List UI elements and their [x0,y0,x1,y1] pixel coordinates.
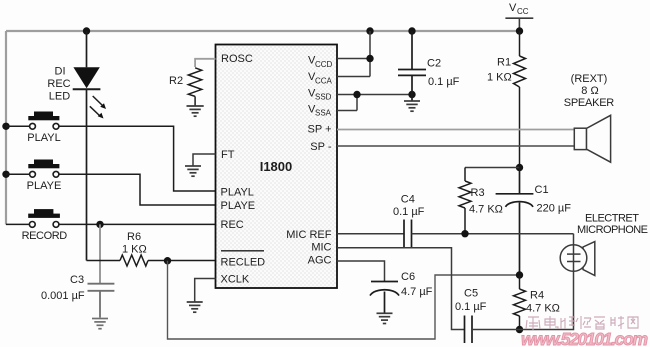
wire Vcca stub [337,76,370,78]
LED emission arrow 1 [93,96,106,109]
label C1 value [535,184,572,215]
resistor R1 [514,31,526,168]
pushbutton RECORD [28,209,60,227]
wire R3 top link [465,167,520,169]
svg-text:4.7 µF: 4.7 µF [401,286,433,298]
ground (C6) [377,313,393,323]
resistor R4 [514,275,526,330]
capacitor C4 [404,220,412,248]
wire microphone bottom to R4 node [520,272,574,330]
capacitor C3 [88,284,115,318]
wire left rail to PLAYL [6,125,29,127]
resistor R3 [459,168,471,234]
node Vssd junction [353,91,360,98]
svg-text:SSD: SSD [315,93,332,102]
svg-text:220 µF: 220 µF [537,203,572,215]
svg-text:PLAYL: PLAYL [27,132,60,144]
electret microphone [560,242,595,276]
label C5 value [455,288,487,314]
svg-text:C2: C2 [427,58,441,70]
node MIC REF / R3 junction [461,230,468,237]
wire AGC to C6 [337,261,385,281]
svg-text:PLAYE: PLAYE [27,180,62,192]
svg-text:R1: R1 [497,57,511,69]
svg-text:4.7 KΩ: 4.7 KΩ [469,204,503,216]
svg-text:MICROPHONE: MICROPHONE [577,224,648,236]
svg-text:ELECTRET: ELECTRET [585,213,639,225]
label C4 value [393,193,425,217]
label C3 value [41,274,85,302]
wire microphone top [573,234,575,245]
LED D1 (DI REC LED) [73,31,101,261]
node C2 ground junction [408,91,415,98]
node left rail / PLAYE [2,171,9,178]
svg-text:R3: R3 [471,187,485,199]
svg-text:SSA: SSA [315,109,332,118]
node R4 / C5 / mic junction [516,326,523,333]
svg-text:XCLK: XCLK [221,274,250,286]
svg-text:CC: CC [517,7,529,16]
wire RECLED feedback trace [168,261,520,339]
svg-text:RECORD: RECORD [22,230,68,242]
wire SP+ line [337,129,574,131]
pin label Vcca [308,71,333,85]
svg-text:ROSC: ROSC [221,53,253,65]
wire ROSC to R2 [195,59,215,67]
speaker (REXT) 8 ohm [574,115,610,162]
svg-text:MIC: MIC [311,242,331,254]
wire left rail [5,31,7,225]
capacitor C1 [496,168,534,276]
pushbutton PLAYE [28,160,59,178]
svg-text:0.1 µF: 0.1 µF [455,301,487,313]
resistor R2 [188,68,201,106]
svg-text:SP +: SP + [308,124,332,136]
node REC wire / C3 junction [96,221,103,228]
node Vccd junction [366,55,373,62]
pin label Vccd [308,55,333,69]
svg-text:PLAYL: PLAYL [221,187,254,199]
ground (FT) [185,166,201,176]
capacitor C2 [398,31,426,101]
svg-text:4.7 KΩ: 4.7 KΩ [526,303,560,315]
svg-text:R4: R4 [530,290,544,302]
wire Vssd stub [337,94,412,96]
LED label DI REC LED [47,65,70,102]
wire SP- line [337,145,574,147]
svg-text:SPEAKER: SPEAKER [564,97,615,109]
svg-text:C6: C6 [401,271,415,283]
wire top supply rail [6,30,520,32]
pin label RECLED with overline [221,251,266,269]
svg-text:www.520101.com: www.520101.com [521,329,648,347]
pin label Vssd [308,87,332,101]
ground (C3) [92,319,108,329]
svg-text:0.1 µF: 0.1 µF [428,76,460,88]
svg-text:8 Ω: 8 Ω [581,85,598,97]
node left rail / PLAYL [2,123,9,130]
wire Vccd stub [337,58,370,60]
pushbutton PLAYL [28,112,59,130]
wire Vssa stub [337,110,357,112]
svg-text:R6: R6 [127,231,141,243]
svg-text:1 KΩ: 1 KΩ [122,244,147,256]
node top rail / C2 junction [408,27,415,34]
wire RECORD to REC pin [59,223,215,225]
wire PLAYL to IC pin [59,126,215,191]
svg-text:REC: REC [47,78,70,90]
wire left rail to PLAYE [6,173,29,175]
label microphone [577,213,648,237]
svg-text:C1: C1 [535,184,549,196]
label R3 value [469,187,503,216]
svg-text:0.001 µF: 0.001 µF [41,290,85,302]
wire FT to ground [193,154,216,166]
svg-text:0.1 µF: 0.1 µF [393,206,425,218]
svg-text:C5: C5 [464,288,478,300]
ground (R2) [187,106,204,116]
wire Vcc branch vertical [369,31,371,77]
svg-text:C3: C3 [70,274,84,286]
resistor R6 [87,255,216,266]
node top rail / Vccd branch junction [366,27,373,34]
svg-text:MIC REF: MIC REF [286,229,332,241]
svg-text:AGC: AGC [308,255,332,267]
ground (XCLK) [187,302,203,312]
svg-text:CCA: CCA [315,76,333,85]
label C6 value [401,271,433,298]
node top rail / Vcc junction [516,27,523,34]
label speaker [564,73,615,109]
IC U1 I1800 body [216,45,338,289]
svg-text:LED: LED [49,91,70,103]
Vcc supply symbol [505,18,533,31]
svg-text:I1800: I1800 [260,159,293,174]
svg-text:R2: R2 [169,75,183,87]
svg-text:V: V [509,2,517,14]
svg-text:C4: C4 [401,193,415,205]
wire left rail to RECORD [6,223,29,225]
label R1 value [487,57,512,84]
wire PLAYE to IC pin [59,174,215,205]
node C1 / R4 / RECLED trace junction [516,271,523,278]
wire C5 to R4 node [472,329,520,331]
LED emission arrow 2 [90,106,104,118]
pin label Vssa [308,103,332,117]
wire C3 branch [99,224,101,283]
wire XCLK to ground [195,279,216,302]
wire MIC REF line [337,233,404,235]
wire MIC line [337,248,464,330]
svg-text:DI: DI [55,65,66,77]
svg-text:FT: FT [221,149,235,161]
capacitor C5 [465,316,473,344]
label R4 value [526,290,560,315]
node R6 / RECLED trace junction [164,257,171,264]
svg-text:PLAYE: PLAYE [221,200,256,212]
wire Vss branch vertical [356,95,358,111]
node top rail / LED junction [83,27,90,34]
svg-text:1 KΩ: 1 KΩ [487,72,512,84]
svg-text:RECLED: RECLED [221,257,266,269]
node R1 / R3 / C1 junction [516,164,523,171]
capacitor C6 [370,282,399,314]
svg-text:SP -: SP - [310,141,332,153]
svg-text:REC: REC [221,219,244,231]
ground (C2) [404,101,420,111]
label C2 value [427,58,460,89]
watermark line 1 (stylized CJK strokes) [526,316,638,330]
svg-text:(REXT): (REXT) [571,73,608,85]
Vcc label [509,2,529,16]
label R6 value [122,231,147,256]
svg-text:CCD: CCD [315,60,333,69]
wire MIC REF line to microphone [412,233,574,235]
